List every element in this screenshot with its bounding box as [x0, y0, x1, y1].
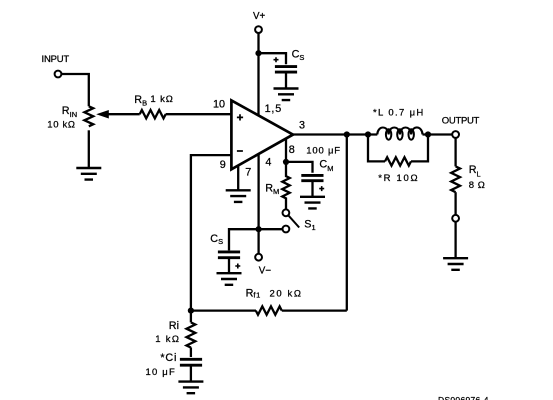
wire RIN bottom to ground [88, 130, 90, 168]
svg-text:8 Ω: 8 Ω [469, 180, 486, 191]
junction output/L-R left [365, 131, 371, 137]
resistor RB [140, 110, 166, 118]
wire node down to V- terminal [257, 231, 259, 254]
terminal OUTPUT [452, 131, 459, 138]
svg-text:100 μF: 100 μF [306, 145, 341, 156]
wire op-amp output rail [293, 133, 452, 135]
terminal INPUT [55, 71, 62, 78]
ground (CS bottom) [217, 273, 242, 285]
wire feedback bottom rail right part [282, 309, 347, 311]
plus sign CS bottom [235, 264, 240, 269]
wire V+ to op-amp pin 1,5 [257, 33, 259, 115]
resistor RM [282, 162, 289, 210]
resistor Ri [186, 322, 195, 347]
svg-text:10 kΩ: 10 kΩ [47, 120, 75, 131]
svg-text:10: 10 [213, 98, 225, 110]
wire L-R loop left down [368, 135, 385, 162]
op-amp - input mark [237, 150, 243, 152]
junction output/feedback [344, 131, 350, 137]
svg-text:OUTPUT: OUTPUT [442, 115, 480, 126]
svg-text:V+: V+ [253, 11, 266, 22]
resistor Rf1 [256, 306, 282, 314]
plus sign CM [319, 186, 324, 191]
junction V+ / CS [255, 50, 261, 56]
inductor L coil [377, 127, 422, 134]
svg-text:8: 8 [289, 144, 295, 156]
wire pin 4 down to V- node [257, 154, 259, 229]
svg-text:3: 3 [299, 119, 305, 131]
wire output to RL [454, 138, 456, 166]
junction feedback/Ri [188, 308, 194, 314]
wire RB to op-amp + input [166, 113, 232, 115]
wire Ri to Ci [190, 347, 192, 357]
terminal V- [255, 254, 262, 261]
ground (pin 7) [226, 190, 251, 202]
resistor R (parallel) [385, 157, 411, 165]
svg-text:*L 0.7 μH: *L 0.7 μH [373, 108, 425, 119]
plus sign CS top [274, 57, 279, 62]
capacitor CS (top) plates [275, 67, 297, 73]
svg-text:1 kΩ: 1 kΩ [155, 334, 180, 345]
wire Ci to ground [190, 367, 192, 382]
wire junction to CM [286, 162, 313, 173]
wire CS bottom to ground [228, 259, 230, 273]
resistor RIN (potentiometer body) [84, 106, 93, 126]
wire CM to ground [311, 182, 313, 197]
capacitor CM plates [301, 175, 323, 180]
switch S1 bottom terminal [283, 226, 290, 233]
svg-text:INPUT: INPUT [42, 54, 70, 65]
wire wiper to RB [108, 113, 140, 115]
svg-text:9: 9 [220, 159, 226, 171]
svg-text:DS006976-4: DS006976-4 [438, 395, 489, 400]
svg-text:4: 4 [265, 157, 271, 169]
ground (RL) [443, 258, 468, 270]
svg-text:*R 10Ω: *R 10Ω [378, 173, 419, 184]
capacitor Ci plates [180, 359, 202, 365]
wire R to right junction [411, 135, 428, 162]
wire RL to lower terminal [454, 192, 456, 215]
svg-text:1,5: 1,5 [265, 103, 282, 115]
wiper arrow of RIN [96, 110, 109, 119]
op-amp U1 triangle [231, 100, 293, 169]
resistor RL [451, 166, 460, 192]
inductor L loop curls [386, 129, 391, 139]
wire feedback bottom rail left part [191, 309, 256, 311]
junction pin8/RM/CM [283, 159, 289, 165]
wire to capacitor CS top [259, 53, 287, 64]
wire node to CS bottom cap [229, 229, 259, 250]
ground (CS top) [274, 89, 299, 101]
svg-text:*Ci: *Ci [160, 352, 177, 364]
op-amp + input mark [237, 114, 243, 120]
svg-text:Ri: Ri [169, 320, 179, 332]
ground (CM) [300, 197, 325, 209]
switch S1 top terminal [283, 209, 290, 216]
junction pin4/CS/V-/S1 [256, 226, 262, 232]
wire CS to ground [285, 74, 287, 89]
junction L-R right [425, 131, 431, 137]
wire junction to Ri [190, 311, 192, 323]
svg-text:7: 7 [245, 167, 251, 179]
wire node to switch S1 [259, 228, 283, 230]
switch S1 lever [288, 215, 299, 227]
ground (Ci) [178, 382, 203, 394]
terminal V+ [255, 26, 262, 33]
wire - input feedback [191, 155, 232, 311]
svg-text:1 kΩ: 1 kΩ [150, 94, 173, 105]
wire feedback down from output [346, 135, 348, 311]
wire pin 8 down [285, 139, 287, 162]
capacitor CS (bottom) plates [218, 252, 240, 258]
wire pin 7 to ground [237, 166, 239, 191]
wire input to RIN top [61, 74, 88, 106]
wire terminal to ground [454, 222, 456, 259]
terminal below RL [452, 215, 459, 222]
ground (RIN) [76, 168, 101, 180]
svg-text:10 μF: 10 μF [146, 367, 176, 378]
svg-text:V−: V− [259, 265, 272, 276]
